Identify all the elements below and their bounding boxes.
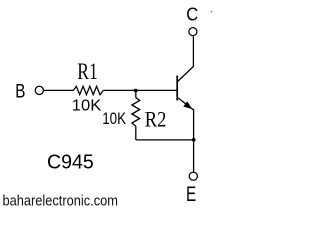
svg-text:R1: R1 bbox=[77, 59, 98, 85]
resistor R1 bbox=[73, 86, 103, 94]
svg-text:R2: R2 bbox=[145, 108, 167, 132]
resistor R2 bbox=[132, 98, 140, 126]
wire R2 top stub bbox=[135, 91, 137, 98]
junction node base/R2 bbox=[134, 89, 138, 93]
terminal C bbox=[189, 28, 197, 36]
svg-text:baharelectronic.com: baharelectronic.com bbox=[3, 191, 118, 208]
svg-text:C: C bbox=[186, 4, 198, 25]
wire R1 to base bbox=[103, 89, 176, 91]
junction node emitter bbox=[192, 138, 196, 142]
wire R2 bottom stub bbox=[135, 126, 137, 140]
transistor Q1 emitter lead bbox=[178, 98, 194, 173]
svg-text:E: E bbox=[186, 182, 196, 206]
terminal E bbox=[189, 172, 197, 180]
transistor Q1 base bar bbox=[176, 76, 178, 101]
svg-text:C945: C945 bbox=[47, 151, 94, 173]
wire R2 to emitter bbox=[136, 139, 194, 141]
svg-text:10K: 10K bbox=[102, 110, 127, 129]
transistor Q1 emitter arrow bbox=[184, 102, 192, 109]
svg-text:10K: 10K bbox=[72, 97, 102, 115]
wire B to R1 bbox=[43, 89, 73, 91]
transistor Q1 collector lead bbox=[178, 36, 194, 81]
svg-text:B: B bbox=[15, 80, 25, 102]
terminal B bbox=[35, 86, 43, 94]
